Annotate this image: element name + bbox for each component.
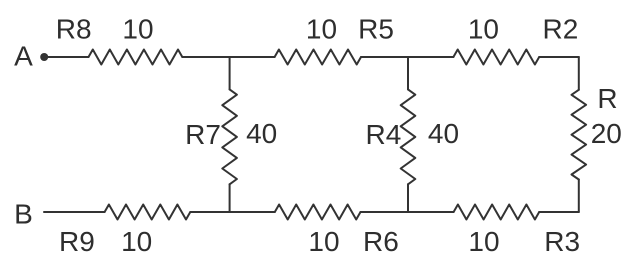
resistor R4	[401, 89, 416, 184]
wire top junction to resistor R4	[407, 57, 409, 89]
wire top junction to resistor R7	[229, 57, 231, 89]
resistor R8	[89, 50, 183, 65]
svg-text:R6: R6	[363, 226, 399, 257]
wire R9 to node E junction	[190, 211, 274, 213]
svg-text:20: 20	[591, 118, 622, 149]
node A terminal dot	[40, 53, 48, 61]
wire R2 to top-right corner	[539, 56, 579, 58]
resistor R9	[105, 205, 191, 220]
resistor R6	[275, 205, 361, 220]
svg-text:10: 10	[122, 13, 153, 44]
svg-text:R9: R9	[59, 226, 95, 257]
svg-text:B: B	[14, 199, 33, 230]
wire A to R8	[44, 56, 88, 58]
resistor R7	[222, 89, 237, 184]
svg-text:R: R	[597, 83, 617, 114]
svg-text:R3: R3	[544, 226, 580, 257]
svg-text:R4: R4	[366, 119, 402, 150]
svg-text:10: 10	[121, 226, 152, 257]
resistor R3	[454, 205, 540, 220]
svg-text:10: 10	[468, 226, 499, 257]
resistor R5	[275, 50, 361, 65]
svg-text:10: 10	[468, 13, 499, 44]
wire R3 to bottom-right corner	[539, 211, 579, 213]
wire resistor R4 to bottom junction	[407, 184, 409, 212]
svg-text:40: 40	[428, 118, 459, 149]
svg-text:R8: R8	[56, 13, 92, 44]
svg-text:40: 40	[246, 118, 277, 149]
wire resistor R7 to bottom junction	[229, 184, 231, 212]
wire B to R9	[44, 211, 105, 213]
resistor R2	[453, 50, 539, 65]
wire top-right corner down to resistor R	[578, 57, 580, 90]
resistor R	[572, 90, 587, 180]
wire R6 to node F junction	[361, 211, 454, 213]
svg-text:10: 10	[308, 226, 339, 257]
wire R8 to node C junction	[182, 56, 274, 58]
svg-text:R5: R5	[358, 13, 394, 44]
wire R5 to node D junction	[361, 56, 453, 58]
svg-text:R2: R2	[543, 13, 579, 44]
svg-text:10: 10	[306, 13, 337, 44]
svg-text:R7: R7	[185, 119, 221, 150]
svg-text:A: A	[14, 41, 33, 72]
wire resistor R to bottom-right corner	[578, 180, 580, 213]
